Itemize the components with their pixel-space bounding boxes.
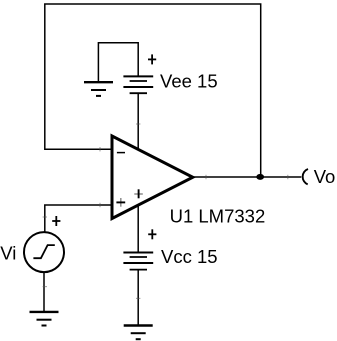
junction tick on output wire at port pin [287,175,289,179]
plus marker of Vcc battery [148,229,156,239]
wire: feedback loop from output node to inverting input [45,4,261,177]
wire: op-amp bottom supply pin to Vcc battery [137,205,139,253]
ground for Vee battery [84,82,113,96]
junction tick on Vcc ground wire [136,297,140,299]
junction tick on inverting input wire [99,147,101,151]
svg-text:Vcc 15: Vcc 15 [161,246,218,267]
svg-text:Vo: Vo [314,166,336,187]
op-amp U1 positive supply pin marker + [134,189,143,198]
svg-text:U1 LM7332: U1 LM7332 [170,206,266,227]
battery Vee [123,76,153,93]
source Vi (ramp voltage source) [24,232,64,272]
junction tick on Vi ground wire [43,286,47,288]
port Vo connector arc [303,169,308,184]
wire: op-amp output to port Vo [193,176,301,178]
plus marker of source Vi [52,216,60,226]
op-amp U1 inverting input marker - [117,152,125,154]
svg-text:Vi: Vi [0,242,16,263]
wire: Vcc battery minus terminal to ground [137,270,139,326]
junction tick on non-inverting input wire [99,203,101,207]
wire: op-amp top supply pin to Vee battery [137,93,139,149]
ground for Vi source [30,312,59,326]
svg-text:Vee 15: Vee 15 [160,71,218,92]
op-amp U1 body [112,136,193,219]
op-amp U1 non-inverting input marker + [116,198,125,207]
plus marker of Vee battery [148,54,156,64]
junction tick on output wire at op-amp pin [205,175,207,179]
battery Vcc [123,253,153,270]
junction tick on Vi top wire [43,216,47,218]
node: output junction dot [256,174,264,180]
ground for Vcc battery [124,326,153,340]
junction tick on Vee supply wire [136,123,140,125]
wire: non-inverting input to Vi source [45,205,112,232]
wire: Vee battery plus terminal to ground hook [98,43,138,82]
wire: Vi source to ground [43,272,45,312]
